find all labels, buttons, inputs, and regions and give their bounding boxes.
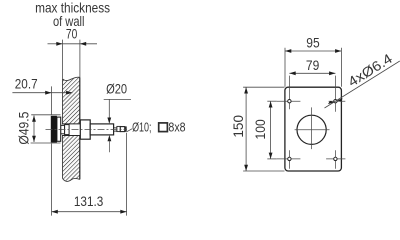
svg-text:150: 150 (231, 115, 246, 138)
svg-text:100: 100 (253, 119, 268, 139)
dimension Ø49.5 (17, 111, 61, 144)
Ø20 shaft (90, 124, 113, 135)
dimension 131.3 (52, 133, 127, 216)
shaft sleeve in wall (65, 125, 70, 135)
svg-text:20.7: 20.7 (15, 76, 38, 91)
bolt hole top-right (329, 76, 346, 112)
svg-text:Ø20: Ø20 (106, 82, 127, 97)
bolt hole bottom-left (277, 150, 301, 168)
bolt hole bottom-right (326, 150, 345, 168)
central hole (297, 115, 326, 144)
dimension 79 (289, 58, 335, 75)
shaft neck behind disc (61, 125, 65, 133)
shaft end pin neck (114, 128, 117, 131)
svg-text:8x8: 8x8 (168, 121, 185, 135)
wall bore (hole band through wall) (62, 124, 80, 136)
svg-text:70: 70 (66, 26, 78, 41)
svg-text:79: 79 (306, 58, 320, 73)
dimension 70 (48, 26, 98, 78)
mounting plate (285, 87, 342, 171)
svg-text:95: 95 (306, 35, 320, 50)
flange block on far side of wall (80, 120, 90, 139)
label Ø10; square 8x8 with leader (127, 121, 186, 135)
dimension Ø20 (104, 82, 131, 153)
wall section (hatched, broken top/bottom) (62, 77, 79, 181)
shaft end collar (117, 126, 120, 131)
dimension 150 (231, 87, 285, 171)
square end cap (125, 126, 127, 131)
label 4xØ6.4 with leader (325, 51, 400, 108)
ring behind disc (57, 117, 61, 141)
svg-text:Ø49.5: Ø49.5 (17, 111, 32, 144)
svg-text:Ø10;: Ø10; (132, 121, 151, 135)
bolt hole top-left (277, 76, 301, 110)
svg-text:131.3: 131.3 (74, 194, 104, 209)
dimension 20.7 (12, 76, 72, 114)
dimension 100 (253, 101, 277, 159)
central crosshair (295, 129, 330, 131)
square end 8x8 (120, 127, 124, 132)
centerline (46, 128, 128, 130)
dimension 95 (285, 35, 341, 86)
disc Ø49.5 (solid side view) (51, 116, 57, 143)
